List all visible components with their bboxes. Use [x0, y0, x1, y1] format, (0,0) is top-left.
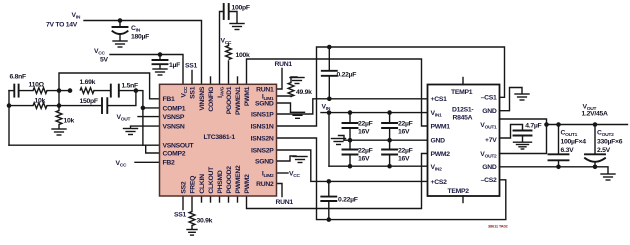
- svg-text:1.2V/45A: 1.2V/45A: [582, 111, 608, 118]
- capacitor 150pF: [59, 105, 102, 107]
- wire PGOOD2 stub: [228, 196, 230, 202]
- svg-text:LTC3861-1: LTC3861-1: [204, 134, 236, 141]
- node junction CIN: [118, 18, 123, 23]
- wire comp input left vertical: [8, 91, 10, 146]
- svg-text:+CS2: +CS2: [431, 179, 448, 186]
- svg-text:CONFIG: CONFIG: [208, 87, 215, 112]
- capacitor 4.7uF on +7V: [500, 125, 523, 139]
- svg-text:SS1: SS1: [189, 86, 196, 99]
- wire CLKIN stub: [201, 196, 203, 202]
- svg-text:16V: 16V: [358, 129, 370, 136]
- capacitor 0.22uF phase2 filter: [327, 179, 332, 184]
- svg-text:38611 TA02: 38611 TA02: [488, 224, 508, 229]
- resistor 10k to ground: [58, 91, 60, 111]
- svg-text:+7V: +7V: [485, 137, 497, 144]
- svg-text:PGOOD2: PGOOD2: [226, 166, 233, 194]
- capacitor 22uF 16V b: [389, 113, 391, 123]
- resistor 10k lower parallel: [9, 105, 33, 107]
- svg-text:7V TO 14V: 7V TO 14V: [46, 22, 78, 29]
- svg-text:100k: 100k: [236, 52, 251, 59]
- power module U2 D12S1-R845A: [428, 85, 500, 197]
- resistor 49.9k ILIM1: [277, 95, 292, 98]
- svg-text:FB1: FB1: [163, 96, 176, 103]
- svg-text:RUN1: RUN1: [256, 86, 274, 93]
- node ILIM2 VCC: [277, 172, 289, 174]
- svg-text:10k: 10k: [64, 117, 75, 124]
- svg-text:TEMP1: TEMP1: [451, 89, 473, 96]
- wire VIN rail top: [84, 21, 202, 85]
- capacitor 0.22uF phase1 filter: [327, 45, 332, 50]
- svg-text:180µF: 180µF: [131, 34, 149, 41]
- svg-text:VSNSN: VSNSN: [163, 124, 185, 131]
- svg-text:1.69k: 1.69k: [80, 79, 96, 86]
- svg-text:4.7µF: 4.7µF: [525, 123, 541, 130]
- node comp mid junction: [57, 88, 62, 93]
- svg-text:30.9k: 30.9k: [197, 218, 213, 225]
- wire CONFIG stub: [210, 77, 212, 84]
- wire VOUT1 rail: [500, 119, 628, 125]
- svg-text:SGND: SGND: [255, 100, 274, 107]
- svg-text:CLKIN: CLKIN: [199, 174, 206, 194]
- svg-text:0.22µF: 0.22µF: [338, 197, 358, 204]
- svg-text:10k: 10k: [35, 98, 46, 105]
- svg-text:GND: GND: [482, 164, 497, 171]
- wire ISNS2N to -CS2: [277, 138, 506, 220]
- svg-text:6.8nF: 6.8nF: [10, 74, 26, 81]
- node comp output junctions: [134, 88, 139, 93]
- svg-text:SGND: SGND: [255, 158, 274, 165]
- op-amp controller U1 LTC3861-1: [160, 84, 277, 196]
- wire ISNS1N to -CS1: [277, 47, 505, 126]
- wire TEMP1 stub: [462, 78, 464, 85]
- capacitor 22uF 16V a: [349, 113, 351, 123]
- svg-text:FB2: FB2: [163, 160, 176, 167]
- svg-text:PGOOD1: PGOOD1: [226, 86, 233, 114]
- svg-text:VINSNS: VINSNS: [199, 86, 206, 110]
- svg-text:2.5V: 2.5V: [597, 147, 611, 154]
- node RUN2 to RUN1: [277, 184, 283, 197]
- wire VCC rail: [110, 55, 183, 85]
- ground mid rail: [339, 136, 345, 141]
- wire SS2 stub: [182, 196, 184, 210]
- wire VIN2 riser: [328, 113, 330, 167]
- resistor 1.69k: [80, 88, 94, 94]
- svg-text:100pF: 100pF: [232, 5, 250, 12]
- wire VSNSOUT rail: [9, 144, 160, 146]
- capacitor COUT2 bank polarized: [594, 125, 596, 155]
- svg-text:SS2: SS2: [180, 181, 187, 194]
- svg-text:FREQ: FREQ: [189, 176, 196, 194]
- svg-text:22µF: 22µF: [358, 121, 373, 128]
- svg-text:16V: 16V: [398, 156, 410, 163]
- svg-text:330µF×6: 330µF×6: [597, 139, 623, 146]
- capacitor 100pF on IAVG: [220, 12, 224, 85]
- capacitor 1.5nF: [110, 85, 112, 97]
- wire ISNS2P to +CS2: [277, 150, 428, 181]
- capacitor 1uF: [159, 55, 161, 61]
- wire VSNSOUT-COMP2 bracket: [146, 145, 160, 153]
- wire ISNS1P to +CS1: [277, 99, 428, 114]
- svg-text:GND: GND: [431, 138, 446, 145]
- svg-text:150pF: 150pF: [80, 98, 98, 105]
- svg-text:PWM1: PWM1: [431, 124, 451, 131]
- svg-text:PWM1: PWM1: [244, 86, 251, 106]
- wire VIN2 rail: [329, 165, 428, 167]
- svg-text:16V: 16V: [398, 129, 410, 136]
- svg-text:RUN2: RUN2: [256, 181, 274, 188]
- wire comp network top rail to FB1: [59, 73, 160, 99]
- svg-text:49.9k: 49.9k: [296, 89, 312, 96]
- wire PWMEN1 stub: [237, 77, 239, 84]
- svg-text:ISNS2N: ISNS2N: [251, 135, 274, 142]
- svg-text:COMP1: COMP1: [163, 105, 186, 112]
- wire GND rail mid: [344, 139, 428, 141]
- wire COMP1 down to VSNSOUT rail: [142, 108, 144, 145]
- svg-text:ISNS1N: ISNS1N: [251, 123, 274, 130]
- ground module GND1: [500, 88, 523, 111]
- svg-text:RUN1: RUN1: [275, 61, 293, 68]
- svg-text:PHSMD: PHSMD: [217, 170, 224, 194]
- svg-text:–CS1: –CS1: [481, 95, 497, 102]
- wire PHSMD stub: [219, 196, 221, 202]
- svg-text:100µF×4: 100µF×4: [561, 139, 587, 146]
- capacitor 22uF 16V c: [349, 140, 351, 149]
- svg-text:0.22µF: 0.22µF: [337, 72, 357, 79]
- svg-text:+CS1: +CS1: [431, 96, 448, 103]
- svg-text:VSNSOUT: VSNSOUT: [163, 143, 195, 150]
- capacitor COUT1 bank: [558, 125, 560, 155]
- wire PWM1 net to module: [247, 59, 428, 126]
- wire PWM2 net to module: [247, 154, 428, 209]
- svg-text:6.3V: 6.3V: [561, 147, 575, 154]
- svg-text:COMP2: COMP2: [163, 150, 186, 157]
- svg-text:ISNS2P: ISNS2P: [251, 147, 274, 154]
- ground SGND2: [277, 156, 297, 161]
- svg-text:D12S1-: D12S1-: [452, 107, 473, 114]
- svg-text:PWMEN2: PWMEN2: [235, 165, 242, 194]
- capacitor 22uF 16V d: [389, 140, 391, 149]
- ground SGND1: [277, 103, 291, 112]
- svg-text:SS1: SS1: [174, 212, 187, 219]
- svg-text:CLKOUT: CLKOUT: [208, 166, 215, 194]
- svg-text:–CS2: –CS2: [481, 177, 497, 184]
- ground VSNSN: [131, 126, 160, 128]
- svg-text:110Ω: 110Ω: [29, 82, 45, 89]
- svg-text:22µF: 22µF: [398, 121, 413, 128]
- svg-text:22µF: 22µF: [398, 148, 413, 155]
- svg-text:5V: 5V: [100, 57, 109, 64]
- wire CLKOUT stub: [210, 196, 212, 202]
- svg-text:PWM2: PWM2: [244, 174, 251, 194]
- svg-text:PWMEN1: PWMEN1: [235, 86, 242, 115]
- wire GND2 rail: [500, 167, 609, 174]
- svg-text:1µF: 1µF: [169, 62, 180, 69]
- svg-text:VSNSP: VSNSP: [163, 114, 185, 121]
- svg-text:16V: 16V: [358, 156, 370, 163]
- capacitor 6.8nF: [9, 90, 14, 92]
- resistor 30.9k FREQ: [191, 196, 193, 212]
- svg-text:RUN1: RUN1: [276, 199, 294, 206]
- wire TEMP2 stub: [462, 196, 464, 203]
- node junction 1uF: [158, 52, 163, 57]
- svg-text:GND: GND: [482, 108, 497, 115]
- svg-text:ISNS1P: ISNS1P: [251, 111, 274, 118]
- svg-text:SS1: SS1: [185, 63, 198, 70]
- wire PWMEN2 stub: [237, 196, 239, 202]
- svg-text:TEMP2: TEMP2: [448, 188, 470, 195]
- svg-text:PWM2: PWM2: [431, 151, 451, 158]
- capacitor CIN 180uF polarized: [119, 21, 121, 28]
- resistor 110ohm: [33, 88, 47, 94]
- svg-text:R845A: R845A: [453, 115, 473, 122]
- svg-text:22µF: 22µF: [358, 148, 373, 155]
- wire COMP1: [143, 107, 160, 109]
- wire VOUT2 riser: [500, 125, 547, 154]
